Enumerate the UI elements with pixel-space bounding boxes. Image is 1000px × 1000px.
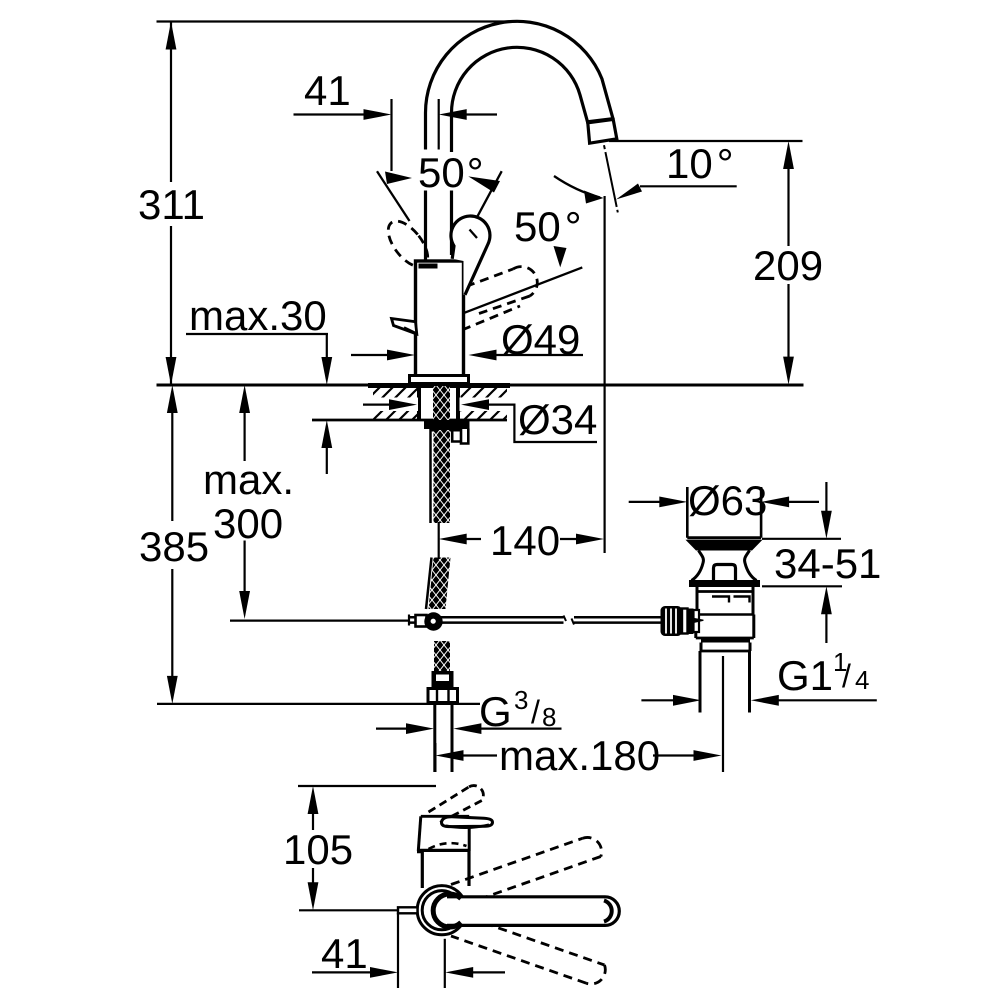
top extension line: [157, 20, 518, 22]
max30 underline: [186, 333, 328, 335]
svg-text:140: 140: [490, 517, 560, 564]
sv spout dashed down: [451, 918, 605, 984]
counter hatch right: [461, 387, 508, 420]
svg-text:max.180: max.180: [499, 732, 660, 779]
dim 209 line: [787, 167, 789, 358]
drain cap bevel: [686, 540, 763, 551]
spout aerator band: [586, 119, 614, 122]
angle 10 arrow left: [584, 191, 604, 204]
drain neck: [692, 551, 704, 581]
rod ball joint: [424, 612, 442, 630]
ext 105 bottom: [299, 909, 398, 911]
wire tube right wall: [450, 113, 453, 255]
counter bottom line: [312, 419, 507, 422]
drain tailpipe: [700, 651, 750, 713]
threaded shank knurl: [433, 386, 450, 420]
max30 line upper: [326, 334, 328, 359]
supply pipe: [435, 703, 452, 773]
arrow o34 left: [389, 399, 417, 410]
svg-text:311: 311: [138, 181, 205, 228]
arrow o34 right: [461, 399, 489, 410]
arrow g114 right: [751, 695, 779, 706]
svg-text:Ø49: Ø49: [501, 316, 580, 363]
arrow 34-51 up: [821, 586, 832, 614]
dim 105 line: [312, 812, 314, 884]
svg-text:3: 3: [514, 685, 528, 715]
arrow max30 down: [321, 357, 332, 385]
svg-text:/: /: [842, 658, 851, 694]
g38 fitting: [432, 671, 454, 688]
arrow max300 bottom: [239, 591, 250, 619]
shank walls: [419, 387, 458, 420]
counter hatch left: [373, 387, 418, 420]
arrow 41 right: [364, 109, 392, 120]
wire spout outer arc: [425, 21, 613, 119]
angle arrow right 50: [468, 176, 500, 192]
base flange: [410, 376, 469, 384]
handle solid teardrop: [451, 216, 490, 295]
DIMENSIONS: [157, 22, 877, 989]
arrow g38 right: [453, 723, 481, 734]
drain stem square: [714, 565, 736, 581]
arrow max300 top: [239, 385, 250, 413]
angle line 50 second: [464, 267, 582, 313]
handle position right dashed: [462, 267, 537, 330]
arrow max30 up: [321, 420, 332, 448]
hose knurl below ball: [434, 641, 450, 672]
svg-text:max.: max.: [203, 456, 294, 503]
dim max180 line: [462, 754, 696, 756]
arrow 140 right: [576, 534, 604, 545]
svg-text:8: 8: [542, 702, 556, 732]
ext 41b right: [444, 939, 446, 988]
g38 hex nut: [428, 689, 458, 703]
arrow 140 left: [439, 534, 467, 545]
arrow o63 left: [659, 497, 687, 508]
dim o63 line: [629, 501, 819, 503]
dim 41b line: [312, 971, 505, 973]
svg-text:/: /: [531, 694, 540, 730]
hatch channel masks: [372, 398, 418, 412]
svg-text:4: 4: [855, 665, 869, 695]
svg-text:Ø63: Ø63: [688, 477, 767, 524]
angle 10 arc: [554, 176, 600, 198]
svg-text:50°: 50°: [418, 149, 484, 196]
dim 34-51 lower: [825, 612, 827, 643]
svg-text:34-51: 34-51: [774, 540, 881, 587]
countertop line: [157, 384, 804, 387]
drain rod cone: [689, 617, 704, 624]
dim 34-51 upper: [825, 482, 827, 513]
drain cap top: [687, 536, 761, 539]
drain mid body: [696, 615, 754, 639]
max300 line: [244, 411, 246, 593]
arrow 34-51 down: [821, 511, 832, 539]
MAIN_VIEW: [425, 21, 616, 261]
wire tube left wall: [424, 113, 427, 261]
locknut: [424, 421, 470, 429]
dim 311 line: [170, 22, 172, 386]
arrow 41b right: [445, 967, 473, 978]
svg-text:10°: 10°: [666, 140, 734, 187]
ext 105 top: [298, 785, 436, 787]
dim o49 leader: [351, 354, 583, 356]
o34 leader: [363, 405, 597, 442]
faucet body: [416, 261, 464, 380]
popup rod: [409, 617, 661, 622]
ext line spout center: [438, 99, 440, 150]
arrow o49 left: [387, 350, 415, 361]
dim 10deg leader: [640, 185, 737, 187]
angle line left 50: [377, 171, 410, 221]
sv housing: [418, 816, 469, 851]
handle position left dashed: [381, 214, 436, 273]
arrow 385 bottom: [167, 676, 178, 704]
sv rod tab: [398, 907, 418, 913]
arrow g38 left: [406, 723, 434, 734]
angle arrow left 50: [385, 172, 412, 185]
ext max180 left: [434, 743, 436, 772]
sv cartridge dashed arc: [429, 843, 467, 849]
svg-text:105: 105: [283, 826, 353, 873]
ext max180 right drain center: [722, 656, 724, 772]
drain top walls: [687, 487, 761, 538]
angle line right 50: [464, 171, 502, 241]
max30 line lower: [326, 446, 328, 474]
sv paddle solid: [442, 817, 493, 827]
svg-text:50°: 50°: [514, 203, 582, 250]
svg-text:41: 41: [304, 67, 351, 114]
svg-text:max.30: max.30: [189, 292, 327, 339]
dim 140 line: [465, 538, 578, 540]
body top bar: [419, 264, 438, 269]
drain lower band: [701, 639, 750, 643]
dim g38 line: [376, 727, 562, 729]
svg-text:G: G: [479, 688, 512, 735]
arrow 105 top: [308, 786, 319, 814]
bottom reference line: [157, 703, 480, 705]
drain seat ring: [689, 580, 760, 587]
arrow o49 right: [469, 350, 497, 361]
svg-text:G1: G1: [777, 652, 833, 699]
supply hose segment 1: [429, 429, 432, 523]
ext line spout tip: [609, 140, 803, 142]
arrow max180 left: [436, 750, 464, 761]
sv escutcheon circles: [417, 886, 466, 935]
svg-text:41: 41: [321, 930, 368, 977]
lever solid: [392, 319, 417, 335]
svg-text:209: 209: [753, 242, 823, 289]
rod clamp: [416, 615, 427, 627]
dim 385 line: [171, 411, 173, 678]
sv spout solid: [447, 897, 619, 926]
arrow max180 right: [694, 750, 722, 761]
arrow g114 left: [673, 695, 701, 706]
vertical stream reference: [603, 196, 605, 553]
svg-text:300: 300: [213, 500, 283, 547]
sv handle dashed open: [429, 786, 484, 824]
arrow 311 down: [166, 357, 177, 385]
sv socket arc: [433, 894, 461, 927]
wire spout inner arc: [451, 47, 587, 122]
hose center ext: [438, 522, 440, 559]
arrow o63 right: [761, 497, 789, 508]
drain rod knob: [661, 606, 683, 636]
arrow 41b left: [370, 967, 398, 978]
drain upper body: [697, 587, 753, 615]
ext 41b left: [397, 913, 399, 988]
arrow 105 bottom: [308, 882, 319, 910]
water stream line: [604, 145, 618, 212]
dim g114 line: [641, 699, 876, 701]
sv neck: [424, 852, 468, 888]
sv spout cap shading: [604, 901, 612, 922]
svg-text:Ø34: Ø34: [518, 396, 597, 443]
arrow 41 left: [439, 109, 467, 120]
arrow 209 top: [783, 141, 794, 169]
max300 leader: [230, 619, 409, 621]
arrow 209 bottom: [783, 357, 794, 385]
supply hose segment 2: [426, 558, 432, 610]
angle 10 arrow right: [616, 184, 642, 200]
sv spout dashed up: [451, 837, 602, 902]
arrow 311 up: [166, 22, 177, 50]
dim 41 top line: [294, 113, 498, 115]
ext line 41 left: [390, 99, 392, 171]
angle arrow 50 second: [554, 246, 567, 267]
svg-text:385: 385: [139, 523, 209, 570]
arrow 385 top: [167, 385, 178, 413]
